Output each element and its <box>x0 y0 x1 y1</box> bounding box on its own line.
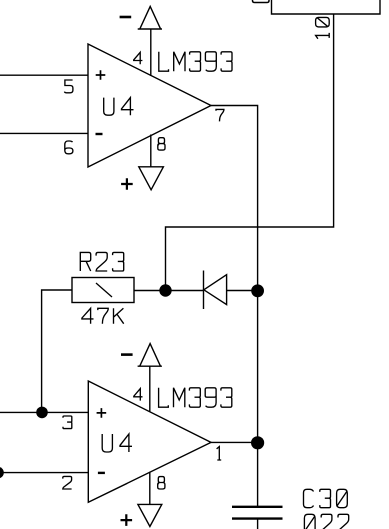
022 value label <box>304 514 348 529</box>
op-amp U4 section 1 (bottom) triangle <box>88 381 211 502</box>
pin 8 wire (top op-amp V-) <box>150 135 152 167</box>
plus input mark (top op-amp) <box>96 70 106 80</box>
pin 6 label <box>65 141 73 154</box>
47K label <box>82 308 124 323</box>
pin 4 label <box>134 52 143 64</box>
minus sign at top arrow (bottom) <box>121 353 133 356</box>
junction dot on pin 3 wire <box>36 407 48 419</box>
pin 8 label (top) <box>158 138 165 150</box>
wire input pin 5 <box>0 74 88 76</box>
pin 1 label <box>217 447 222 460</box>
pin 4 label (bottom) <box>134 389 143 401</box>
wire R23 right to node <box>134 290 166 292</box>
pin 2 label <box>63 476 72 489</box>
minus sign at top arrow <box>120 16 132 19</box>
wire node to diode cathode <box>166 290 204 292</box>
minus input mark (bottom op-amp) <box>98 472 105 474</box>
power arrow down (top op-amp pin 8) <box>139 167 164 190</box>
power arrow down (bottom op-amp pin 8) <box>138 504 162 526</box>
wire output pin 1 to node <box>211 441 258 443</box>
wire output pin 7 to node <box>211 106 258 291</box>
wire below C30 <box>257 520 259 529</box>
junction dot (left of diode) <box>159 284 171 296</box>
pin 8 label (bottom) <box>158 477 165 489</box>
LM393 label (bottom) <box>159 388 232 407</box>
minus input mark (top op-amp) <box>96 133 103 135</box>
pin 7 label <box>216 109 224 121</box>
wire R23 left to pin3 node <box>42 290 72 412</box>
pin 5 label <box>64 80 73 93</box>
U4 label (top) <box>104 98 134 116</box>
resistor R23 body <box>72 278 134 303</box>
power arrow up (bottom op-amp pin 4) <box>138 344 162 367</box>
pin 8 wire (bottom op-amp V-) <box>149 472 151 505</box>
wire diode node down to output node and C30 <box>257 291 259 507</box>
plus input mark (bottom op-amp) <box>97 408 107 418</box>
diode triangle <box>204 275 227 305</box>
C30 label <box>304 489 348 507</box>
pin 4 wire (bottom op-amp V+) <box>149 366 151 412</box>
diode cathode bar <box>203 271 205 310</box>
LM393 label (top) <box>159 52 232 71</box>
power arrow up (top op-amp pin 4) <box>138 6 162 29</box>
connector box (top right) <box>272 0 381 14</box>
plus sign at bottom arrow (top op-amp) <box>121 178 133 190</box>
capacitor C30 plates <box>232 507 283 519</box>
wire input pin 2 <box>0 472 88 474</box>
op-amp U4 section 2 (top) triangle <box>88 44 211 167</box>
junction dot at output node <box>251 436 264 449</box>
pin 4 wire (top op-amp V+) <box>150 29 152 76</box>
wire pin10 to diode node <box>166 14 334 291</box>
plus sign at bottom arrow (bottom op-amp) <box>121 514 133 526</box>
wire input pin 3 <box>0 411 88 413</box>
pin 3 label <box>63 416 72 429</box>
partial label glyph (cut off at top edge) <box>253 0 270 3</box>
wire diode anode to node <box>227 290 258 292</box>
junction dot (right of diode) <box>251 284 264 297</box>
pin 10 label <box>316 17 330 38</box>
U4 label (bottom) <box>102 434 132 452</box>
wire input pin 6 <box>0 132 88 134</box>
junction dot at left edge on pin 2 wire <box>0 467 4 479</box>
R23 label <box>80 252 123 271</box>
